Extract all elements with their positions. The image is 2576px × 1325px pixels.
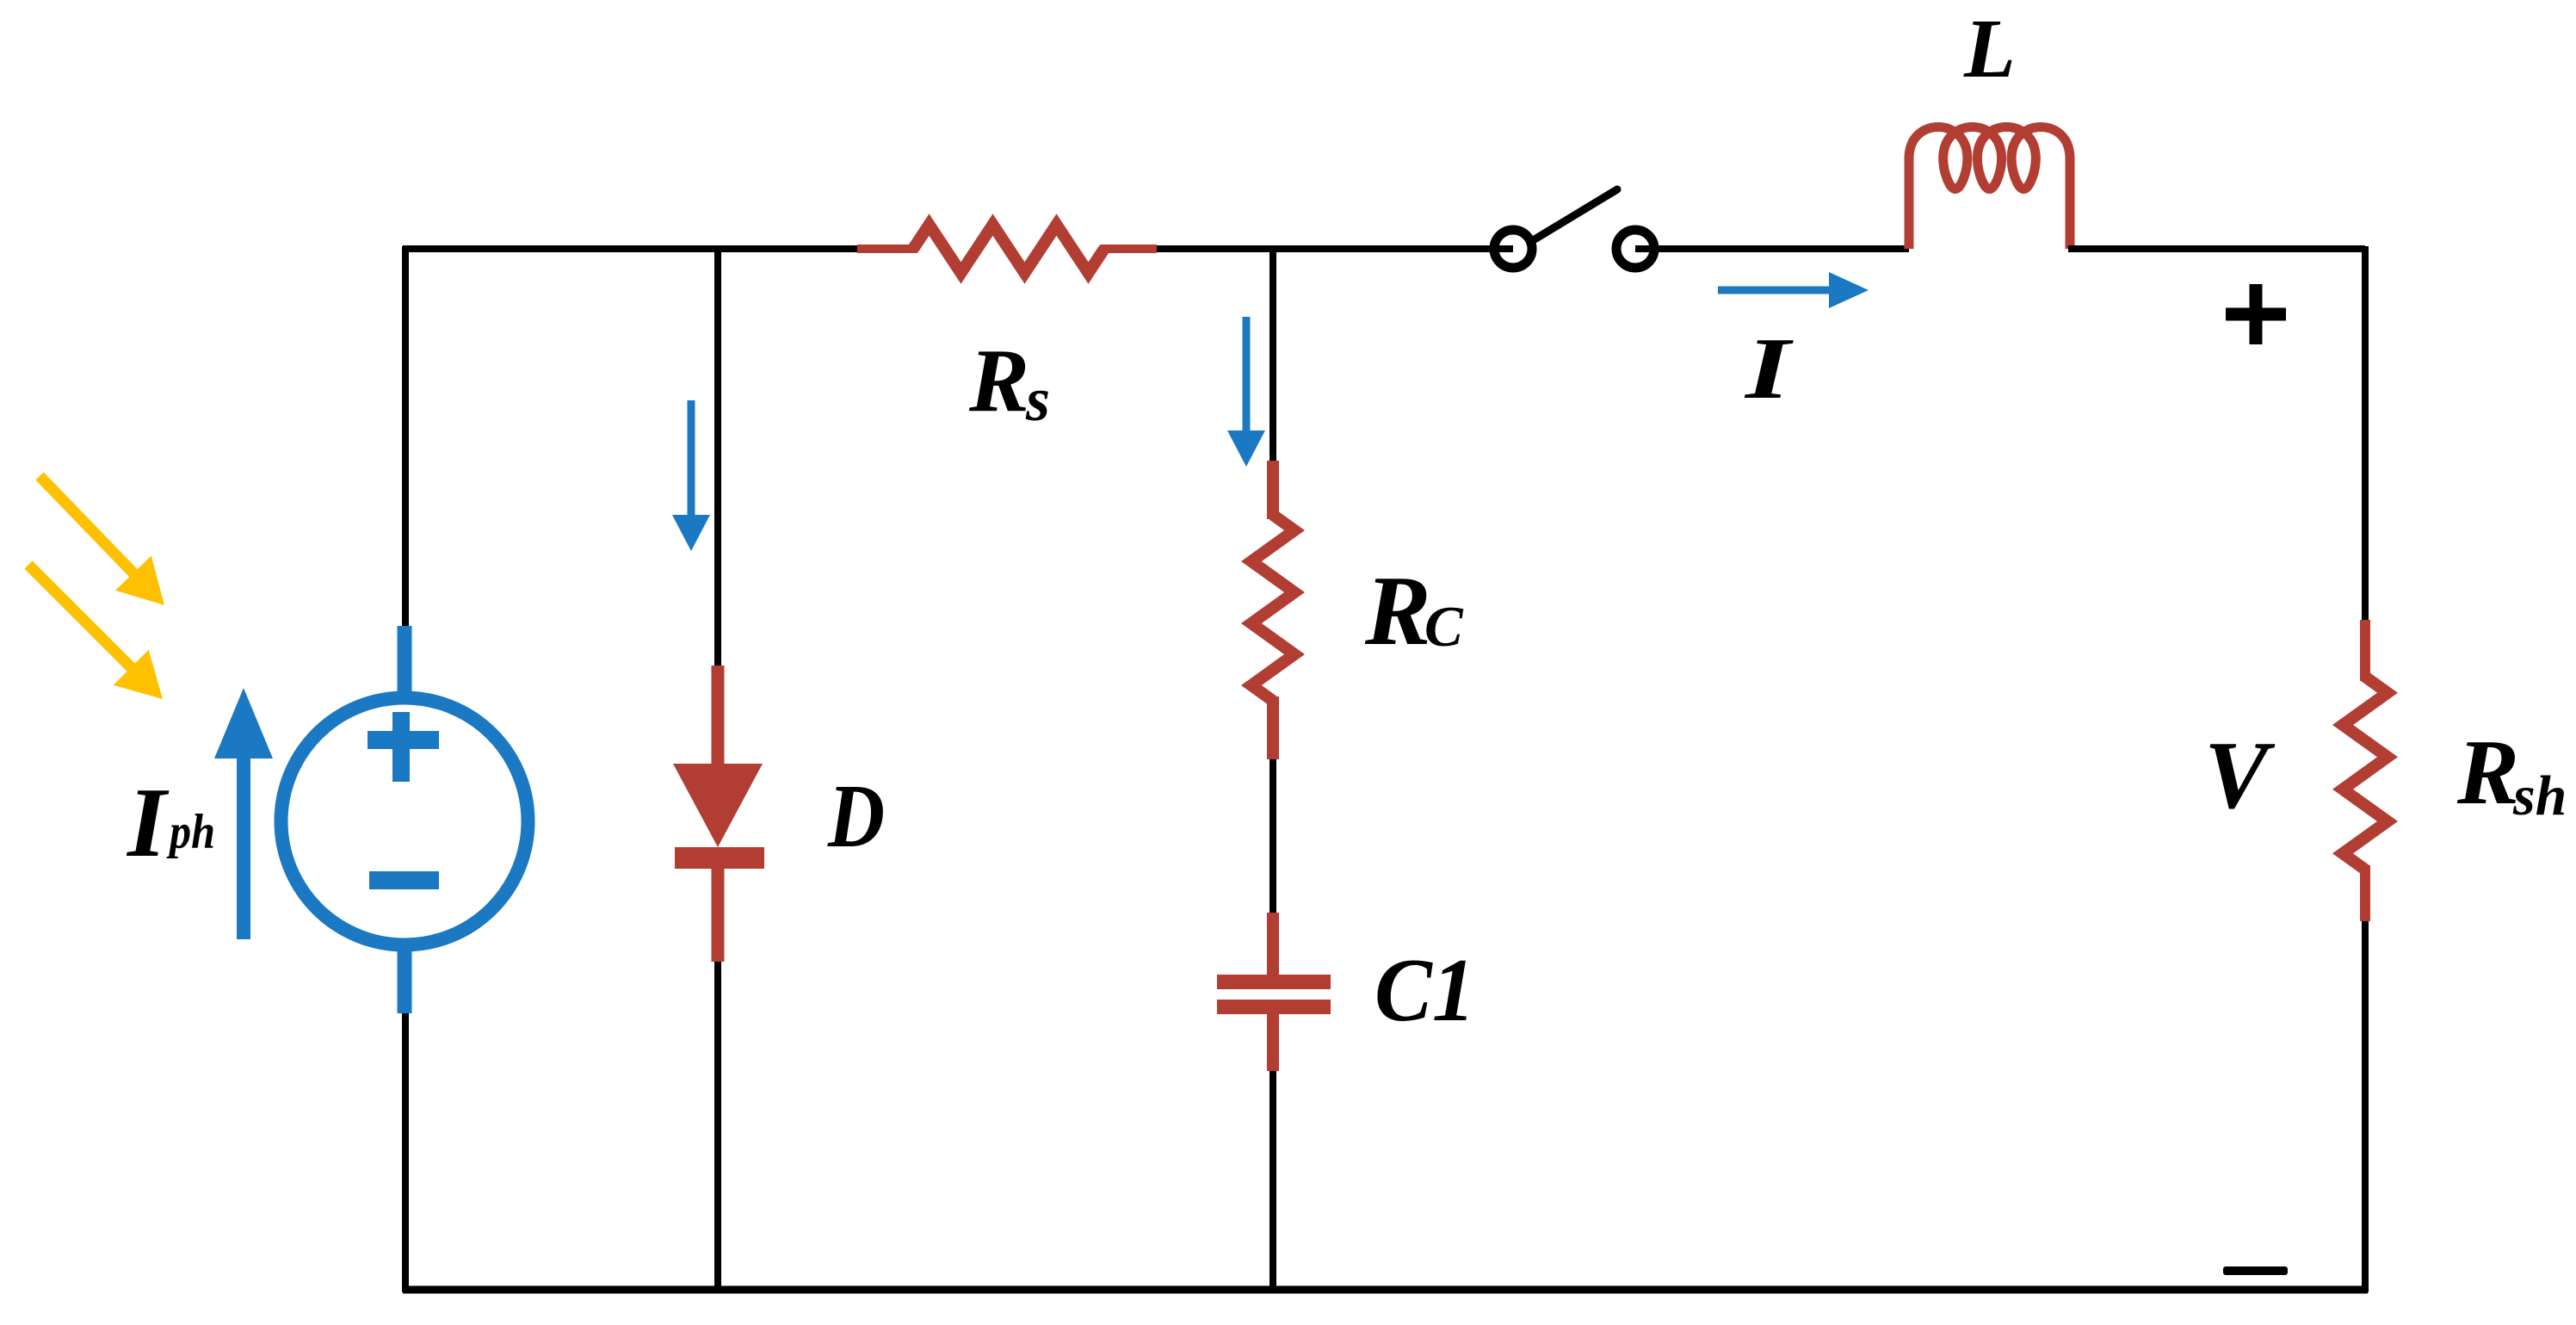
wire bottom rail [403, 1286, 2368, 1294]
current source Iph plus [368, 731, 439, 749]
switch S1 lever [1535, 189, 1617, 239]
svg-text:R: R [968, 330, 1029, 430]
svg-text:ph: ph [166, 805, 215, 859]
current source Iph circle [281, 698, 528, 945]
arrow Iph current direction [237, 758, 250, 939]
wire left vertical (top) [402, 246, 409, 626]
inductor L [1909, 127, 2070, 250]
current source Iph minus [369, 871, 439, 889]
current source Iph top lead [398, 626, 412, 699]
switch S1 left contact [1494, 230, 1532, 268]
current source Iph bottom lead [398, 945, 412, 1013]
wire diode branch (top) [714, 249, 721, 666]
arrow I load current [1718, 287, 1830, 294]
svg-text:R: R [2456, 721, 2519, 824]
wire right vertical (top) [2362, 246, 2369, 620]
wire diode branch (bottom) [714, 962, 721, 1290]
wire top rail left segment [403, 245, 857, 252]
resistor Rsh [2360, 620, 2370, 681]
svg-text:I: I [126, 768, 170, 878]
wire C1 branch (bottom) [1269, 1071, 1276, 1290]
wire RC branch (top) [1269, 249, 1276, 461]
arrow RC branch current [1243, 317, 1251, 431]
wire left vertical (bottom) [402, 1012, 409, 1292]
svg-text:C: C [1424, 595, 1464, 659]
arrow diode current [688, 400, 695, 516]
switch S1 right contact [1616, 230, 1654, 268]
svg-text:R: R [1364, 556, 1431, 666]
svg-text:L: L [1963, 3, 2016, 96]
svg-text:D: D [827, 765, 885, 866]
plus terminal of V [2226, 308, 2286, 321]
sunlight arrow 1 [40, 476, 134, 573]
minus terminal of V [2223, 1266, 2288, 1275]
sunlight arrow 2 [28, 565, 132, 668]
svg-text:I: I [1745, 320, 1795, 418]
wire top rail between switch and L [1635, 245, 1909, 252]
diode D [712, 666, 725, 767]
svg-text:s: s [1025, 365, 1050, 434]
capacitor C1 [1267, 913, 1279, 975]
svg-text:C1: C1 [1374, 939, 1475, 1040]
wire right vertical (bottom) [2362, 921, 2369, 1292]
resistor RC [1267, 461, 1279, 519]
wire top rail right segment [2068, 245, 2365, 252]
wire between RC and C1 [1269, 759, 1276, 913]
resistor Rs [857, 245, 917, 253]
wire top rail between Rs and switch [1157, 245, 1513, 252]
svg-text:V: V [2204, 722, 2276, 829]
svg-text:sh: sh [2512, 765, 2567, 827]
